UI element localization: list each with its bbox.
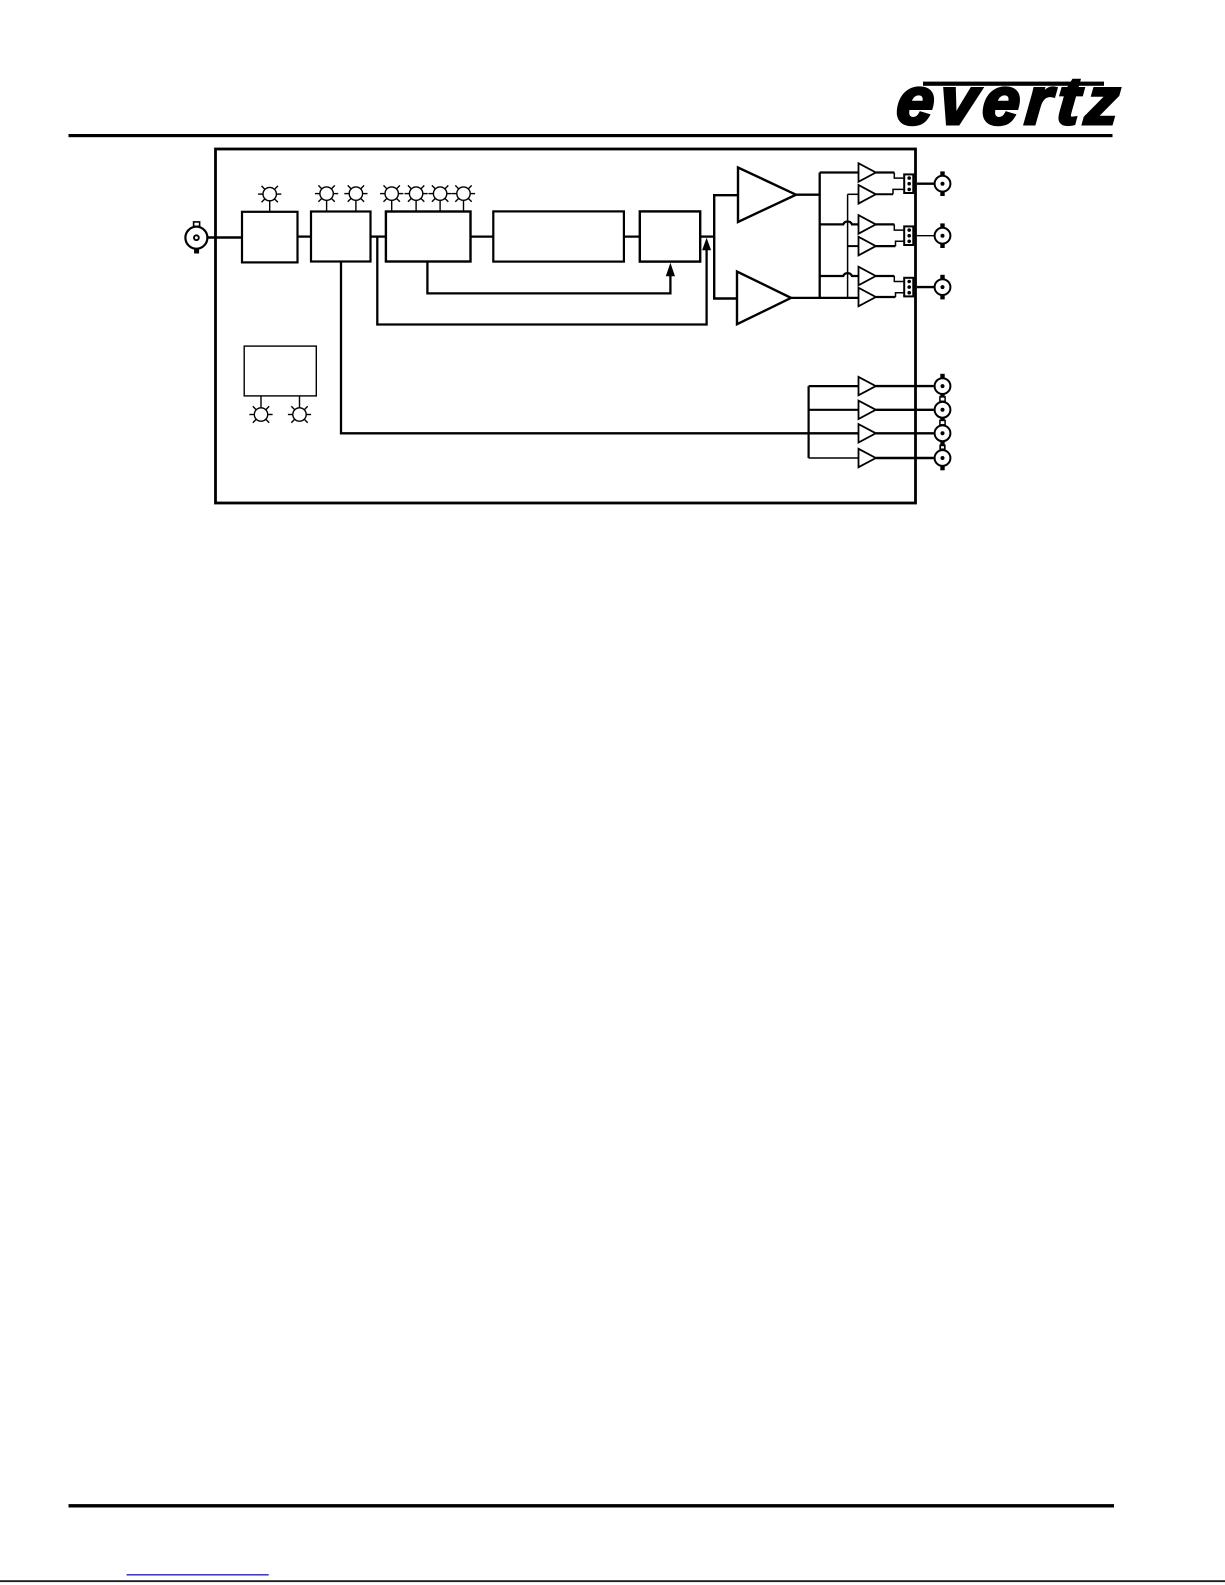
input BNC J1 [185, 222, 207, 254]
wire bus row4 to buffer B7 [809, 457, 859, 459]
wire B3a to header J4 pin1 [876, 275, 895, 277]
jumper header J2 [904, 174, 913, 193]
wire V1 branch to buffer B3a with hop [820, 273, 859, 276]
wire V1 branch to buffer B1a [820, 171, 859, 173]
buffer B4 [859, 377, 876, 395]
bus V2 vertical [847, 194, 849, 297]
wire bus row3 to buffer B6 [809, 432, 859, 434]
wire U5 to splitter node [700, 235, 714, 237]
wire V2 stub to buffer B1b [848, 193, 859, 195]
block U3 [386, 212, 471, 262]
jumper header J4 [904, 278, 913, 297]
trimpot R3 above U2 [344, 185, 367, 211]
block U5 [640, 211, 700, 261]
footer link underline [127, 1574, 269, 1575]
svg-text:evertz: evertz [894, 64, 1123, 139]
outer card frame [216, 149, 916, 503]
output BNC 3 [935, 275, 951, 300]
buffer B3b [859, 288, 876, 307]
wire U4 to U5 [624, 235, 640, 237]
trimpot R7 above U3 [452, 185, 475, 211]
output BNC 5 [935, 397, 951, 422]
evertz logo wordmark [894, 64, 1123, 139]
wire B4 to BNC 4 [876, 385, 934, 387]
footer rule [69, 1504, 1115, 1507]
wire U3 to U4 [471, 235, 494, 237]
output BNC 4 [935, 374, 951, 399]
bus V1 vertical [819, 173, 821, 298]
trimpot R2 above U2 [315, 185, 338, 211]
trimpot R5 above U3 [405, 185, 428, 211]
wire bus row2 to buffer B5 [809, 409, 859, 411]
wire B1b to header J2 pin3 [876, 193, 893, 195]
splitter bracket [714, 195, 738, 298]
buffer B1b [859, 185, 876, 204]
wire J3 to output BNC 2 [917, 235, 934, 237]
wire U1 to U2 [298, 235, 312, 237]
buffer B1a [859, 163, 876, 182]
wire U2 bottom feed to lower amp bus [341, 262, 809, 434]
page bottom edge [0, 1580, 1225, 1582]
wire A2 output to buffer B3b [791, 297, 859, 299]
wire B3b to header J4 pin3 [876, 296, 896, 298]
block U2 [311, 212, 371, 262]
wire input BNC to EQ block [208, 236, 243, 238]
arrowhead up into U5 bottom [666, 263, 675, 276]
wire V2 branch to buffer B2b [848, 245, 859, 247]
wire A1 output to bus V1 [796, 194, 820, 196]
trimpot R6 above U3 [429, 185, 452, 211]
arrowhead up into splitter node [702, 238, 711, 250]
wire J2 to output BNC 1 [917, 182, 934, 184]
wire J4 to output BNC 3 [917, 286, 934, 288]
buffer B2a [859, 215, 876, 234]
wire B2b to header J3 pin3 [876, 245, 896, 247]
lower amp bus vertical [807, 386, 809, 458]
evertz logo overline [923, 82, 1104, 86]
trimpot R1 above U1 [258, 186, 281, 212]
buffer B2b [859, 237, 876, 256]
buffer B3a [859, 267, 876, 286]
header rule [69, 134, 1113, 137]
output BNC 7 [935, 445, 951, 470]
output BNC 2 [935, 223, 951, 248]
trimpot R8 below U6 [249, 396, 272, 423]
block U1 (input EQ) [242, 212, 298, 263]
op-amp A1 (top driver) [738, 168, 796, 223]
block U6 (oscillator, lower left) [244, 346, 316, 396]
wire B2a to header J3 pin1 [876, 223, 895, 225]
wire V1 branch to buffer B2a with hop [820, 222, 859, 225]
output BNC 6 [935, 420, 951, 445]
output BNC 1 [935, 171, 951, 196]
wire B1a to header J2 pin1 [876, 171, 895, 173]
wire tap between U2 and U3 down and around [377, 237, 706, 325]
wire B6 to BNC 6 [876, 432, 934, 434]
wire U2 to U3 [371, 235, 386, 237]
op-amp A2 (bottom driver) [737, 272, 791, 325]
trimpot R9 below U6 [288, 396, 311, 423]
trimpot R4 above U3 [380, 185, 403, 211]
wire B7 to BNC 7 [876, 457, 934, 459]
buffer B6 [859, 424, 876, 442]
wire bus row1 to buffer B4 [809, 385, 859, 387]
wire U3 bottom feedback to U5 [427, 262, 670, 294]
wire B5 to BNC 5 [876, 409, 934, 411]
jumper header J3 [904, 226, 913, 245]
buffer B7 [859, 449, 876, 467]
buffer B5 [859, 401, 876, 419]
block U4 (delay line) [493, 211, 624, 261]
